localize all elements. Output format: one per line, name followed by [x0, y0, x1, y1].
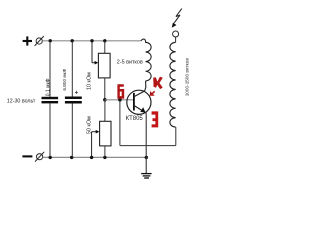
- wire: C1 lower lead: [49, 103, 51, 157]
- wire: bottom supply rail: [43, 156, 147, 158]
- wire: R1 bottom lead to base node: [104, 78, 106, 100]
- node: R2 wiper bottom junction: [90, 156, 93, 159]
- svg-text:50 кОм: 50 кОм: [86, 116, 92, 134]
- spark lightning bolt: [174, 9, 182, 23]
- wire: feedback from secondary to base: [120, 100, 176, 146]
- svg-text:0,1 мкФ: 0,1 мкФ: [46, 78, 52, 96]
- red annotation Э (emitter): [152, 111, 159, 127]
- transistor Q1 emitter stroke with arrow: [135, 106, 145, 112]
- inductor L2 secondary 1000-1500 витков: [170, 42, 176, 127]
- wire: R2 bottom lead: [104, 146, 106, 158]
- transistor Q1 base bar: [133, 93, 135, 111]
- wire: C1 upper lead: [49, 41, 51, 97]
- transistor Q1 collector stroke: [135, 91, 145, 96]
- wiper arm of R2: [92, 132, 97, 158]
- svg-text:12-30 вольт: 12-30 вольт: [7, 99, 36, 105]
- minus sign of supply: [22, 155, 32, 157]
- wire: C2 upper lead: [71, 41, 73, 97]
- node: cap C1 top junction: [49, 39, 52, 42]
- transistor Q1 circle: [127, 90, 151, 114]
- node: cap C2 top junction: [71, 39, 74, 42]
- wiper arm of R1: [92, 41, 97, 63]
- capacitor C2 6.800 мкФ: [65, 97, 82, 104]
- node: R2 bottom junction: [103, 156, 106, 159]
- wire: R1 top lead: [104, 41, 106, 54]
- svg-text:2-5 витков: 2-5 витков: [117, 60, 143, 66]
- resistor R1 10 кОм body: [98, 53, 110, 78]
- wire: C2 lower lead: [71, 104, 73, 158]
- svg-text:1000-1500 витков: 1000-1500 витков: [184, 58, 189, 97]
- wire: top supply rail: [42, 40, 140, 42]
- svg-text:+: +: [75, 91, 79, 97]
- svg-text:10 кОм: 10 кОм: [86, 72, 92, 90]
- node: cap C2 bottom junction: [70, 156, 73, 159]
- ground: [141, 174, 151, 178]
- node: R1 wiper top junction: [90, 39, 93, 42]
- wire: emitter down to ground: [145, 113, 147, 174]
- wire: collector to primary coil: [145, 81, 146, 91]
- capacitor C1 0,1 мкФ: [42, 97, 59, 104]
- node: feedback tap on base wire: [118, 98, 122, 102]
- node: R1 top junction: [103, 39, 106, 42]
- resistor R2 50 кОм body: [100, 121, 111, 146]
- plus sign of supply: [23, 36, 32, 45]
- discharge terminal circle: [173, 31, 179, 37]
- positive input terminal: [35, 36, 44, 46]
- wire: secondary top lead: [175, 37, 177, 42]
- wire: R2 top lead: [104, 100, 106, 122]
- red annotation Б (base): [117, 84, 124, 98]
- wire: base wire: [105, 99, 133, 101]
- node: emitter / bottom rail junction: [145, 156, 148, 159]
- svg-text:КТ805: КТ805: [126, 116, 144, 122]
- red annotation К (collector) with arrow: [150, 77, 163, 96]
- inductor L1 primary 2-5 витков: [141, 39, 151, 81]
- node: base divider junction: [103, 98, 107, 102]
- svg-text:6.800 мкФ: 6.800 мкФ: [62, 68, 67, 90]
- node: cap C1 bottom junction: [49, 156, 52, 159]
- negative input terminal: [35, 152, 44, 162]
